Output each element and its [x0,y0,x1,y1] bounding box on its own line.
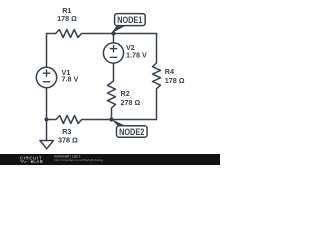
svg-text:■LAB: ■LAB [30,159,43,164]
svg-text:378 Ω: 378 Ω [58,136,78,145]
svg-text:R2: R2 [121,89,130,98]
svg-text:1.78 V: 1.78 V [126,50,147,59]
svg-text:178 Ω: 178 Ω [165,76,185,85]
svg-text:NODE1: NODE1 [117,14,142,25]
svg-text:R4: R4 [165,67,174,76]
svg-text:278 Ω: 278 Ω [121,98,141,107]
svg-text:http://circuitlab.com/c85a5y8c: http://circuitlab.com/c85a5y8c44dcg [54,158,103,162]
svg-text:NODE2: NODE2 [119,126,144,137]
svg-text:7.8 V: 7.8 V [62,75,79,84]
svg-text:178 Ω: 178 Ω [57,14,77,23]
